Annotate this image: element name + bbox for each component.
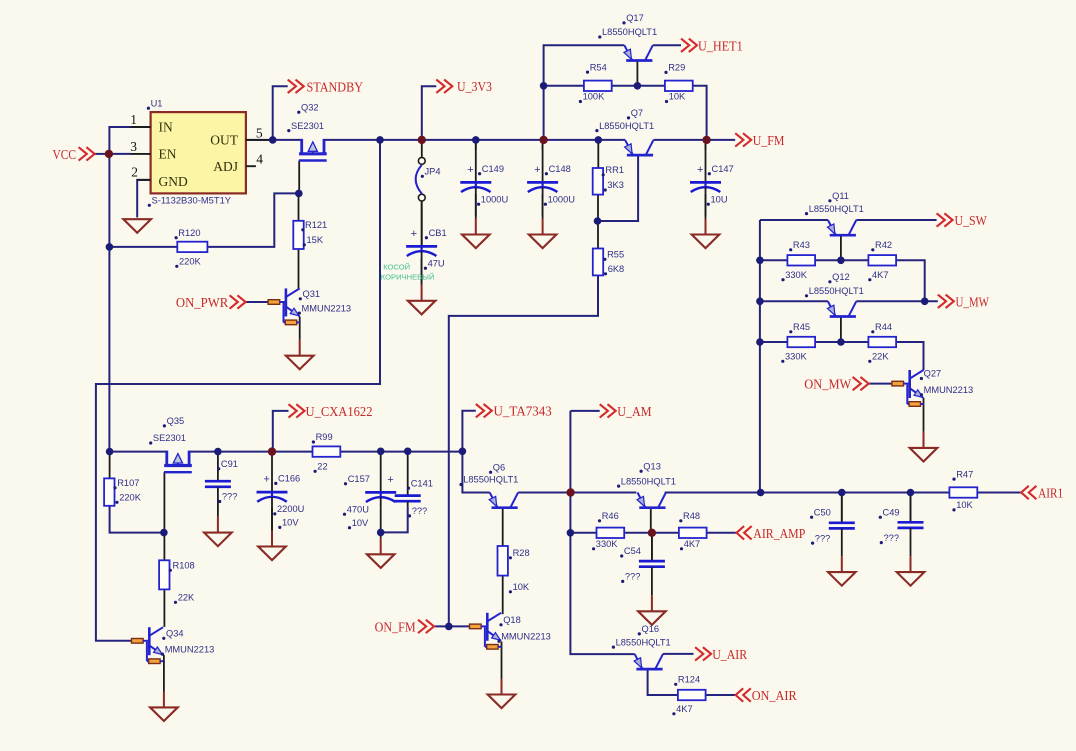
svg-text:U_AM: U_AM	[617, 405, 652, 420]
svg-text:R46: R46	[602, 511, 619, 521]
svg-text:U_TA7343: U_TA7343	[494, 405, 552, 420]
wire Q32 drain to rail	[324, 139, 422, 141]
wire Q35 drain to C91 node	[189, 451, 272, 453]
svg-text:ON_PWR: ON_PWR	[176, 296, 229, 311]
wire C50 hang	[841, 493, 843, 522]
svg-text:R45: R45	[793, 322, 810, 332]
wire gate node to R121	[298, 193, 300, 220]
Q35 designator	[163, 416, 184, 427]
resistor RR1 box	[593, 168, 603, 195]
R28 designator	[509, 548, 530, 559]
svg-text:C166: C166	[278, 474, 300, 484]
R46 designator	[598, 511, 619, 522]
port VCC	[53, 147, 95, 163]
R54 designator	[586, 62, 607, 73]
wire C49 hang	[910, 493, 912, 522]
Q34 part MMUN2213	[161, 644, 214, 655]
transistor Q7 L8550HQLT1	[625, 140, 654, 155]
transistor Q35 SE2301 P-MOSFET	[164, 451, 192, 473]
wire VCC to U1 pins 1/3	[94, 153, 110, 155]
resistor R42 box	[868, 255, 896, 265]
svg-text:15K: 15K	[307, 235, 324, 245]
IC U1 regulator S-1132B30-M5T1Y	[151, 112, 246, 193]
port U_AM	[600, 404, 652, 420]
wire Q6 collector to U_AM column	[518, 492, 571, 494]
wire RR1 to node	[597, 195, 599, 221]
junction at 840.9,260.3	[837, 257, 845, 265]
resistor R46 box	[597, 528, 625, 538]
wire Q35 gate lead	[163, 472, 165, 532]
svg-text:470U: 470U	[347, 504, 369, 514]
svg-text:Q13: Q13	[643, 461, 661, 471]
capacitor C166 2200U	[257, 452, 305, 531]
svg-text:IN: IN	[159, 120, 173, 135]
resistor R48 box	[679, 528, 707, 538]
wire C141 down to link	[381, 507, 408, 532]
transistor Q18 MMUN2213	[470, 613, 502, 649]
wire rail C148 to Q7 emitter	[544, 139, 626, 141]
wire U1 OUT pin5 to Q32	[246, 139, 302, 141]
wire VCC junction to pin3	[109, 153, 130, 155]
capacitor C91	[205, 452, 238, 517]
svg-text:L8550HQLT1: L8550HQLT1	[809, 286, 864, 296]
wire Q12 emitter line	[760, 300, 828, 302]
Q32 designator	[297, 102, 318, 113]
svg-text:R121: R121	[305, 220, 327, 230]
Q18 part MMUN2213	[497, 632, 550, 643]
svg-text:U_CXA1622: U_CXA1622	[306, 405, 373, 420]
svg-text:22K: 22K	[178, 593, 195, 603]
wire R43 to Q11 base node	[815, 259, 868, 261]
svg-text:C157: C157	[348, 474, 370, 484]
wire C157 C141 shared ground link	[380, 508, 382, 533]
junction at 272.7,139.9	[269, 136, 277, 144]
RR1 value 3K3	[604, 180, 624, 191]
Q11 designator	[828, 191, 849, 202]
Q16 part L8550HQLT1	[612, 637, 671, 648]
Q13 designator	[640, 461, 661, 472]
wire C149 hang	[475, 140, 477, 150]
R42 designator	[871, 240, 892, 251]
svg-text:100K: 100K	[583, 92, 606, 102]
junction (net) at 706.6,139.9	[702, 136, 710, 144]
U1 pin 2 GND	[131, 165, 150, 180]
Q31 designator	[299, 289, 320, 300]
svg-text:Q18: Q18	[503, 615, 521, 625]
svg-text:SE2301: SE2301	[291, 121, 324, 131]
svg-text:???: ???	[815, 533, 831, 543]
R46 value 330K	[592, 539, 618, 550]
wire C147 hang	[705, 140, 707, 150]
Q27 designator	[920, 369, 941, 380]
ground C54	[638, 595, 666, 625]
svg-text:S-1132B30-M5T1Y: S-1132B30-M5T1Y	[152, 195, 232, 206]
svg-text:1000U: 1000U	[548, 194, 575, 204]
junction (net) at 108.9,153.9	[105, 150, 113, 158]
svg-text:10K: 10K	[956, 500, 973, 510]
wire R43 line	[760, 259, 788, 261]
U1 pin name IN	[159, 120, 173, 135]
resistor R107 box	[104, 478, 114, 505]
junction at 380,139.9	[376, 136, 384, 144]
capacitor C148 1000U	[527, 140, 575, 216]
jumper JP4	[416, 158, 426, 202]
wire R45 line	[760, 341, 788, 343]
capacitor C54	[620, 533, 665, 596]
svg-text:Q7: Q7	[631, 108, 643, 118]
wire rail branch down to left net	[96, 140, 380, 641]
junction (net) at 421.8,139.9	[418, 136, 426, 144]
wire R46 line	[570, 532, 596, 534]
svg-text:???: ???	[884, 533, 900, 543]
svg-text:10K: 10K	[669, 92, 686, 102]
wire R42 to U_MW node	[896, 260, 925, 301]
svg-text:Q17: Q17	[626, 13, 644, 23]
resistor R47 box	[949, 487, 977, 497]
svg-text:1000U: 1000U	[481, 194, 508, 204]
transistor Q11 L8550HQLT1	[827, 220, 856, 235]
svg-text:U_AIR: U_AIR	[712, 648, 748, 663]
svg-text:ON_AIR: ON_AIR	[752, 689, 798, 704]
port U_CXA1622	[289, 404, 373, 420]
svg-text:+: +	[534, 164, 540, 176]
svg-text:MMUN2213: MMUN2213	[924, 385, 974, 395]
wire R107 hang	[109, 452, 111, 479]
wire Q6 base to R28	[502, 509, 504, 547]
Q7 part L8550HQLT1	[595, 121, 654, 132]
junction at 637.4,85.8	[634, 82, 642, 90]
svg-text:R44: R44	[875, 322, 892, 332]
junction at 910.5,492.5	[907, 489, 915, 497]
svg-text:1: 1	[130, 112, 137, 127]
svg-text:ON_MW: ON_MW	[804, 378, 852, 393]
junction at 597.5,221	[594, 217, 602, 225]
R124 value 4K7	[672, 704, 692, 715]
U1 pin 5 OUT	[246, 126, 273, 141]
svg-text:C49: C49	[883, 507, 900, 517]
junction at 840.9,342	[837, 338, 845, 346]
junction at 380.7,532.4	[377, 529, 385, 537]
svg-text:4K7: 4K7	[872, 270, 889, 280]
R120 value 220K	[175, 257, 201, 268]
JP4 designator	[421, 167, 441, 178]
svg-text:ON_FM: ON_FM	[375, 620, 416, 635]
resistor R29 box	[665, 81, 693, 91]
port U_SW	[937, 213, 988, 229]
wire VCC junction down to R120	[109, 154, 177, 247]
junction at 759.9,342	[756, 338, 764, 346]
ground C148	[529, 194, 557, 248]
svg-text:4K7: 4K7	[676, 704, 693, 714]
transistor Q6 L8550HQLT1	[489, 493, 518, 508]
R55 value 6K8	[604, 264, 624, 275]
R107 designator	[113, 478, 139, 489]
resistor R28 box	[498, 546, 508, 576]
wire R99 to junction	[340, 451, 462, 453]
wire C91 node to R99	[272, 451, 313, 453]
port ON_AIR	[736, 688, 798, 704]
wire Q7 base down-left	[598, 155, 639, 221]
svg-text:330K: 330K	[596, 539, 619, 549]
ground C166	[258, 508, 286, 560]
wire R107 bottom to gate node	[110, 506, 164, 533]
U1 pin 4 ADJ	[246, 152, 263, 167]
junction at 109.6,451.6	[106, 448, 114, 456]
Q7 designator	[627, 108, 643, 119]
svg-text:22K: 22K	[872, 352, 889, 362]
wire gate node to R108	[163, 533, 165, 561]
svg-text:3: 3	[130, 139, 137, 154]
junction at 598.3,139.9	[595, 136, 603, 144]
wire node to R55	[597, 221, 599, 249]
transistor Q32 SE2301 P-MOSFET	[299, 139, 327, 161]
wire Q11 base down	[840, 236, 842, 260]
U1 pin name EN	[159, 146, 177, 161]
Q12 part L8550HQLT1	[805, 286, 864, 297]
ground U1 pin2	[123, 219, 151, 233]
wire R47 to AIR1	[977, 492, 1021, 494]
ground C50	[828, 556, 856, 586]
svg-text:OUT: OUT	[210, 133, 238, 148]
junction at 543.6,85.8	[540, 82, 548, 90]
svg-text:MMUN2213: MMUN2213	[165, 644, 215, 654]
port U_3V3	[436, 80, 492, 96]
svg-text:AIR1: AIR1	[1038, 487, 1063, 502]
R54 value 100K	[579, 92, 605, 103]
wire VCC column continues down	[108, 247, 110, 384]
transistor Q17 L8550HQLT1	[624, 45, 653, 60]
svg-text:R120: R120	[178, 228, 200, 238]
svg-text:+: +	[387, 474, 393, 486]
U1 pin 3 EN	[130, 139, 150, 154]
capacitor C149 1000U	[460, 140, 508, 216]
wire Q18 emitter down	[501, 642, 503, 679]
svg-text:MMUN2213: MMUN2213	[501, 632, 551, 642]
R45 value 330K	[781, 352, 807, 363]
svg-text:R107: R107	[117, 478, 139, 488]
Q16 designator	[638, 624, 659, 635]
svg-text:L8550HQLT1: L8550HQLT1	[463, 475, 518, 485]
R120 designator	[175, 228, 201, 239]
wire Q7 collector to C147 node	[654, 139, 707, 141]
resistor R108 box	[159, 560, 169, 589]
wire Q12 collector to U_MW	[856, 300, 938, 302]
wire Q32 gate lead down	[298, 161, 300, 194]
Q11 part L8550HQLT1	[805, 204, 864, 215]
svg-text:Q35: Q35	[167, 416, 185, 426]
R44 designator	[871, 322, 892, 333]
R29 value 10K	[665, 92, 686, 103]
ground C49	[897, 556, 925, 586]
junction (net) at 570.6,492.5	[566, 488, 574, 496]
Q13 part L8550HQLT1	[617, 476, 676, 487]
R45 designator	[789, 322, 810, 333]
svg-text:R124: R124	[678, 675, 700, 685]
wire STANDBY riser	[273, 86, 288, 140]
wire ON_PWR to Q31 base	[244, 301, 268, 303]
junction at 759.9,260.3	[756, 257, 764, 265]
ground C157 C141 shared	[367, 536, 395, 568]
ground C91	[204, 517, 232, 547]
svg-text:22: 22	[317, 462, 327, 472]
ground CB1	[408, 258, 436, 314]
wire R48 to AIR_AMP	[707, 532, 737, 534]
svg-text:+: +	[411, 228, 417, 240]
R108 value 22K	[174, 593, 195, 604]
wire U_CXA1622 riser	[273, 411, 289, 452]
svg-text:Q11: Q11	[832, 191, 849, 201]
wire AIR1 line	[761, 492, 950, 494]
svg-text:STANDBY: STANDBY	[307, 80, 364, 95]
svg-text:6K8: 6K8	[608, 264, 625, 274]
svg-text:+: +	[264, 474, 270, 486]
svg-text:???: ???	[222, 492, 238, 502]
Q17 part L8550HQLT1	[598, 27, 657, 38]
resistor R54 box	[584, 81, 612, 91]
svg-text:U_FM: U_FM	[753, 134, 785, 149]
svg-text:L8550HQLT1: L8550HQLT1	[599, 121, 654, 131]
resistor R124 box	[678, 690, 706, 700]
svg-text:220K: 220K	[179, 257, 202, 267]
ground Q27 emitter	[910, 432, 938, 462]
svg-text:R108: R108	[173, 561, 195, 571]
R42 value 4K7	[868, 270, 888, 281]
capacitor C50	[810, 493, 855, 557]
svg-text:EN: EN	[159, 146, 177, 161]
svg-text:L8550HQLT1: L8550HQLT1	[809, 204, 864, 214]
svg-text:U_3V3: U_3V3	[457, 80, 492, 95]
wire R29 to C147 node	[693, 86, 707, 140]
R28 value 10K	[509, 582, 530, 593]
svg-text:4: 4	[256, 152, 263, 167]
Q34 designator	[162, 629, 183, 640]
svg-text:R28: R28	[513, 548, 530, 558]
transistor Q16 L8550HQLT1	[634, 654, 663, 669]
svg-text:10V: 10V	[282, 518, 299, 528]
U1 pin name OUT	[210, 133, 238, 148]
wire Q12 base down	[840, 317, 842, 342]
R48 value 4K7	[680, 539, 700, 550]
wire Q13 collector to SW column	[665, 492, 761, 494]
wire junction down to Q6 emitter	[462, 451, 489, 492]
junction at 759.9,301.3	[756, 298, 764, 306]
wire Q35 source	[110, 451, 167, 453]
wire Q17 base down	[636, 60, 638, 85]
junction at 448.8,626.4	[445, 623, 453, 631]
svg-text:2: 2	[131, 165, 138, 180]
svg-text:L8550HQLT1: L8550HQLT1	[621, 476, 676, 486]
svg-text:Q27: Q27	[924, 369, 942, 379]
transistor Q27 MMUN2213	[892, 370, 924, 406]
junction at 380.7,451.3	[377, 448, 385, 456]
wire Q16 base to R124	[648, 670, 678, 696]
Q35 part SE2301	[149, 433, 186, 444]
R43 value 330K	[781, 270, 807, 281]
Q31 part MMUN2213	[298, 303, 351, 314]
wire Q27 emitter down to ground	[923, 398, 925, 432]
svg-text:AIR_AMP: AIR_AMP	[753, 527, 805, 542]
U1 pin 1 IN	[130, 112, 150, 127]
junction at 570.4,532.8	[567, 529, 575, 537]
junction at 760.6,492.5	[757, 489, 765, 497]
port U_HET1	[681, 39, 743, 55]
svg-text:330K: 330K	[785, 270, 808, 280]
svg-text:RR1: RR1	[605, 165, 624, 175]
ground C147	[692, 194, 720, 248]
junction at 109.4,246.9	[106, 243, 114, 251]
R44 value 22K	[868, 352, 889, 363]
svg-text:2200U: 2200U	[277, 504, 304, 514]
junction at 475.8,139.9	[472, 136, 480, 144]
U1 designator	[147, 98, 163, 109]
wire R44 to Q27 collector	[896, 342, 923, 370]
resistor R99 box	[313, 446, 341, 456]
svg-text:CB1: CB1	[429, 228, 447, 238]
wire R28 to Q18 collector	[502, 576, 504, 615]
svg-text:Q31: Q31	[303, 289, 321, 299]
wire R124 to ON_AIR	[706, 694, 736, 696]
svg-text:+: +	[467, 164, 473, 176]
resistor R45 box	[787, 337, 815, 347]
ground Q18 emitter	[488, 679, 516, 709]
Q6 part L8550HQLT1	[459, 475, 518, 486]
R99 value 22	[314, 462, 328, 473]
svg-text:Q16: Q16	[642, 624, 660, 634]
wire Q34 emitter down	[163, 655, 165, 692]
svg-text:КОСОЙ: КОСОЙ	[383, 262, 410, 271]
R99 designator	[312, 432, 333, 443]
R29 designator	[664, 63, 685, 74]
capacitor C141	[395, 451, 433, 517]
port U_AIR	[695, 647, 748, 663]
R47 designator	[952, 469, 973, 480]
junction at 217.9,451.6	[214, 448, 222, 456]
svg-text:Q32: Q32	[301, 102, 319, 112]
Q12 designator	[828, 272, 849, 283]
wire R120 to gate node	[207, 193, 298, 247]
junction (net) at 651.9,532.8	[648, 529, 656, 537]
svg-text:10U: 10U	[711, 194, 728, 204]
wire Q13 emitter	[571, 492, 637, 494]
svg-text:C149: C149	[482, 164, 504, 174]
wire Q13 base down	[650, 509, 652, 533]
transistor Q34 MMUN2213	[132, 627, 164, 663]
wire Q16 collector to U_AIR	[663, 653, 694, 655]
wire R108 to Q34 collector	[163, 589, 165, 627]
resistor R43 box	[787, 255, 815, 265]
svg-text:C141: C141	[411, 478, 433, 488]
svg-text:R54: R54	[590, 62, 607, 72]
wire Q11 collector to U_SW	[856, 219, 936, 221]
junction at 924.7,301.3	[921, 298, 929, 306]
wire U1 GND pin2 down to ground	[137, 180, 150, 218]
RR1 designator	[602, 165, 624, 176]
svg-text:MMUN2213: MMUN2213	[302, 303, 352, 313]
wire R54 to base node	[612, 85, 665, 87]
svg-text:???: ???	[625, 572, 641, 582]
svg-text:SE2301: SE2301	[153, 433, 186, 443]
capacitor C157 470U	[343, 451, 396, 529]
wire C147 node to U_FM	[707, 139, 736, 141]
svg-text:U_HET1: U_HET1	[698, 39, 743, 54]
wire Q17 collector to U_HET1	[653, 44, 681, 46]
svg-text:R47: R47	[956, 469, 973, 479]
port U_MW	[938, 295, 990, 311]
junction at 407.7,451.3	[404, 448, 412, 456]
wire Q11 emitter riser	[760, 219, 828, 221]
port ON_PWR	[176, 295, 246, 311]
junction at 298.8,193.4	[295, 190, 303, 198]
